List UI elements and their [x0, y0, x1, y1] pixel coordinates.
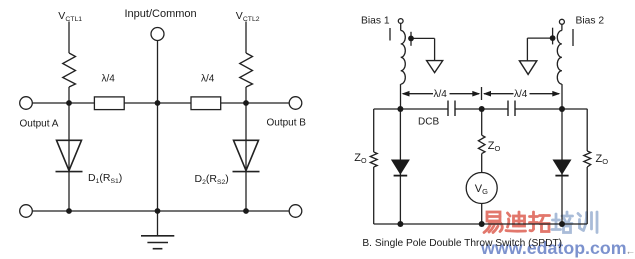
svg-text:CTL1: CTL1 [65, 16, 82, 23]
svg-text:B. Single Pole Double Throw Sw: B. Single Pole Double Throw Switch (SPDT… [362, 238, 562, 249]
svg-text:DCB: DCB [418, 116, 439, 127]
svg-text:λ/4: λ/4 [434, 89, 448, 100]
svg-text:Output B: Output B [267, 118, 307, 129]
svg-text:Input/Common: Input/Common [125, 8, 197, 20]
svg-text:λ/4: λ/4 [514, 89, 528, 100]
svg-text:Output A: Output A [20, 119, 59, 130]
svg-text:λ/4: λ/4 [102, 74, 116, 85]
svg-text:λ/4: λ/4 [201, 74, 215, 85]
svg-text:V: V [236, 10, 243, 22]
svg-text:V: V [58, 10, 65, 22]
svg-text:Bias 2: Bias 2 [576, 15, 605, 26]
svg-text:Bias 1: Bias 1 [361, 15, 390, 26]
svg-text:←: ← [626, 247, 635, 258]
svg-text:CTL2: CTL2 [243, 16, 260, 23]
